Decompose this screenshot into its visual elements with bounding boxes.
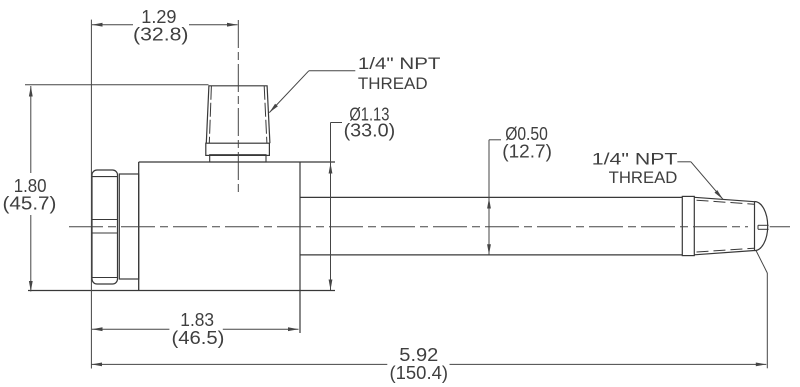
svg-text:(46.5): (46.5): [172, 327, 225, 348]
svg-text:(32.8): (32.8): [133, 23, 189, 44]
svg-text:THREAD: THREAD: [609, 169, 678, 187]
svg-text:THREAD: THREAD: [358, 75, 428, 93]
svg-text:1/4" NPT: 1/4" NPT: [592, 151, 678, 169]
svg-text:1/4" NPT: 1/4" NPT: [358, 55, 441, 73]
svg-text:(150.4): (150.4): [390, 362, 449, 383]
svg-text:(33.0): (33.0): [344, 119, 396, 140]
svg-text:(45.7): (45.7): [3, 192, 57, 213]
svg-text:(12.7): (12.7): [502, 141, 552, 162]
